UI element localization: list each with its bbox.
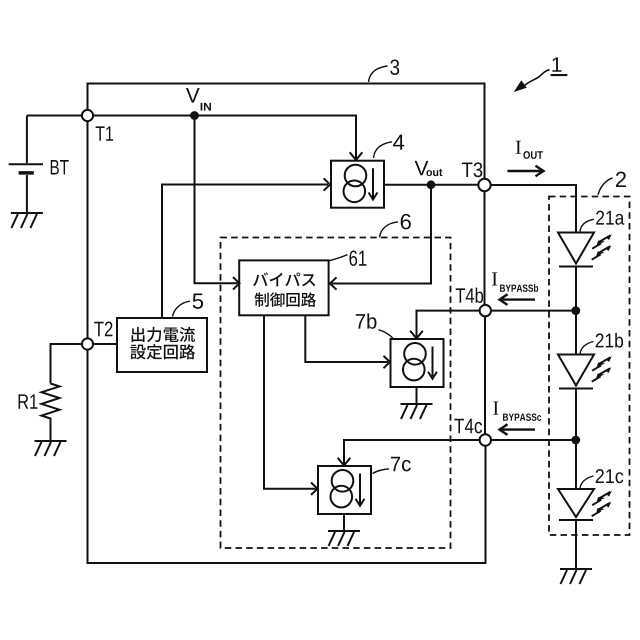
- reference arrow 1: [514, 70, 550, 92]
- label T2: [94, 322, 112, 337]
- label Vout: [415, 161, 429, 175]
- wire: Vout down into bypass control right input: [332, 185, 431, 284]
- arrow IBYPASSb: [500, 294, 536, 305]
- wire: T4c left, down into current source 7c: [344, 440, 480, 464]
- terminal T2: [82, 338, 93, 349]
- wire: VIN down into bypass control left input: [195, 116, 238, 284]
- LED 21c: [558, 489, 594, 520]
- wire: current source 4 output to T3: [384, 184, 479, 186]
- label 6: [401, 214, 411, 230]
- wire: T1 right to corner, down into current source 4: [93, 116, 356, 159]
- leader for 2: [598, 178, 613, 195]
- dashed box 2 (LED string): [549, 197, 630, 536]
- label 2: [616, 172, 626, 187]
- wire: bypass control to 7c: [264, 315, 316, 488]
- resistor R1: [42, 384, 60, 441]
- label output current line2: [130, 344, 195, 359]
- leader for 61: [329, 255, 348, 261]
- wire: rail T4b down to T4c: [484, 316, 486, 434]
- label VIN: [186, 88, 200, 102]
- wire 7b to ground: [416, 387, 418, 404]
- label T3: [462, 162, 482, 177]
- wire: T4b right to LED node: [491, 310, 576, 312]
- wire: rail T4c down to bottom rail: [485, 446, 487, 564]
- leader for 7c: [373, 469, 390, 474]
- label 61: [349, 250, 366, 266]
- wire: T1 to battery: [27, 115, 82, 117]
- wire: output setting circuit 5 up and right into current source 4: [162, 185, 328, 319]
- label IOUT: [516, 141, 521, 154]
- label output current line1: [132, 327, 195, 342]
- ground below LED string: [560, 569, 592, 584]
- wire LED b-c: [575, 389, 577, 490]
- wire: left rail T1 to T2: [87, 121, 89, 339]
- LED 21a: [558, 233, 594, 267]
- leader for 7b: [379, 330, 394, 339]
- output current setting circuit box 5: [117, 318, 207, 372]
- wire LED a-b: [575, 267, 577, 355]
- wire: T4c right to LED node: [491, 439, 576, 441]
- leader for 21c: [580, 476, 594, 488]
- label 5: [193, 293, 203, 308]
- wire: left rail T2 down, bottom rail to right: [88, 350, 486, 563]
- arrow IBYPASSc: [500, 424, 536, 435]
- label bypass seigyo kairo line1: [253, 272, 315, 286]
- wire: T2 to box 5: [93, 343, 117, 345]
- node Vout junction dot: [427, 180, 436, 189]
- label 21a: [596, 211, 624, 225]
- terminal T4c: [480, 434, 491, 445]
- label 3: [390, 59, 399, 75]
- label 21b: [596, 333, 623, 348]
- leader for 3: [369, 66, 388, 82]
- label T1: [96, 126, 113, 140]
- ground below 7b: [401, 404, 433, 419]
- label 1 underlined: [552, 57, 561, 71]
- wire 7c to ground: [343, 514, 345, 531]
- current source 7b: [391, 339, 444, 387]
- label 4: [393, 135, 404, 150]
- bypass control circuit box 61: [239, 260, 328, 315]
- junction dot LED node c: [571, 436, 580, 445]
- wire: T4b left, down into current source 7b: [417, 311, 480, 337]
- label T4b: [456, 288, 483, 303]
- label 21c: [596, 469, 624, 483]
- label R1: [19, 394, 38, 408]
- label 7b: [356, 313, 377, 328]
- current source 4: [331, 161, 384, 208]
- leader for 6: [380, 222, 399, 238]
- ground below 7c: [328, 531, 360, 546]
- ground below R1: [35, 441, 67, 456]
- wire: bypass control to 7b: [305, 315, 388, 362]
- wire: rail T3 down to T4b: [484, 191, 486, 305]
- terminal T3: [478, 179, 490, 191]
- battery BT: [9, 116, 43, 214]
- label 7c: [391, 457, 411, 472]
- node VIN junction dot: [190, 111, 199, 120]
- label BT: [51, 160, 69, 174]
- leader for 4: [374, 142, 393, 158]
- arrow IOUT: [508, 166, 544, 177]
- label IBYPASSb: [492, 272, 497, 285]
- wire: T3 to LED string: [491, 185, 576, 233]
- wire LED c to ground: [575, 520, 577, 569]
- leader for 21b: [580, 342, 594, 354]
- junction dot LED node b: [571, 306, 580, 315]
- LED 21b: [558, 355, 594, 389]
- wire: T2 left and down to R1: [51, 344, 83, 384]
- leader for 5: [173, 301, 191, 316]
- ground below battery: [11, 213, 43, 228]
- label T4c: [454, 419, 482, 434]
- dashed box 6 (bypass circuit): [221, 238, 451, 549]
- current source 7c: [318, 466, 371, 514]
- leader for 21a: [580, 219, 594, 231]
- terminal T4b: [480, 305, 491, 316]
- wire: outer top loop T1 up, right to T3: [88, 84, 485, 179]
- label IBYPASSc: [493, 401, 498, 414]
- label bypass seigyo kairo line2: [255, 292, 316, 306]
- terminal T1: [82, 110, 93, 121]
